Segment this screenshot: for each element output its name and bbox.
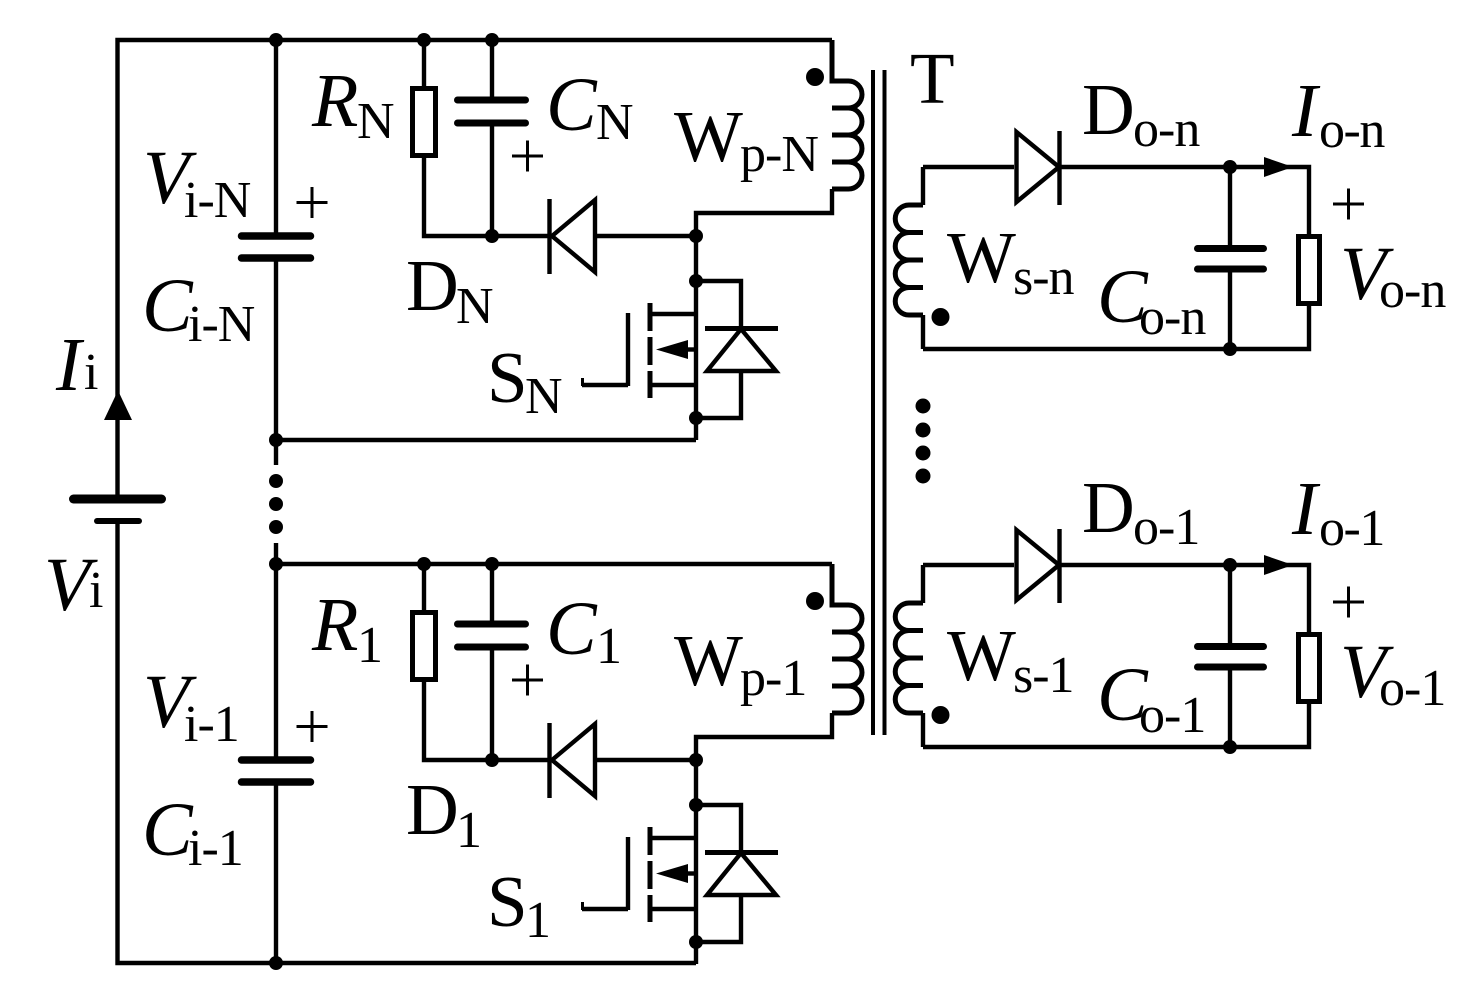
battery V_i (short plate): [97, 518, 139, 524]
svg-text:s-n: s-n: [1013, 249, 1075, 306]
transistor S_1 gate lead: [582, 907, 628, 911]
wire: load bottom lead / output bottom rail: [923, 702, 1309, 748]
wire: body diode top branch: [696, 281, 741, 329]
wire: body diode bottom branch: [696, 371, 741, 418]
node: cell N bottom rail junction: [269, 433, 283, 447]
node: bottom rail / C_i-1 junction: [269, 956, 283, 970]
wire: body diode bottom branch: [696, 895, 741, 942]
svg-text:o-n: o-n: [1379, 262, 1446, 319]
winding W_p-1: primary coil: [832, 564, 862, 713]
diode D_1 (triangle): [552, 724, 595, 796]
svg-text:o-1: o-1: [1379, 660, 1445, 717]
wire: C_N top lead: [490, 40, 494, 97]
wire: load bottom lead / output bottom rail: [923, 304, 1309, 350]
svg-text:S: S: [487, 861, 528, 942]
wire: diode D_1 anode to drain node: [595, 758, 696, 762]
transistor S_1 channel dashes: [648, 827, 653, 922]
wire: C_1 top lead: [490, 564, 494, 621]
winding W_p-N: primary coil: [832, 40, 862, 189]
svg-text:i-1: i-1: [188, 820, 243, 877]
arrow I_o-1: [1264, 555, 1293, 575]
svg-text:i-N: i-N: [184, 172, 251, 229]
capacitor C_i-1: [242, 760, 311, 782]
svg-text:N: N: [456, 278, 494, 335]
svg-text:i-1: i-1: [184, 696, 239, 753]
wire: C_o-1 bottom lead: [1228, 671, 1232, 748]
wire: C_i-N top lead: [274, 40, 278, 233]
wire: R_1 bottom lead to snubber rail: [424, 680, 550, 760]
battery V_i (long plate): [74, 495, 162, 504]
load resistor V_o-n: [1299, 237, 1320, 304]
svg-text:D: D: [1082, 467, 1135, 548]
wire: C_i-N bottom lead: [274, 262, 278, 466]
wire: secondary leads: [921, 565, 925, 747]
svg-text:N: N: [596, 94, 634, 151]
node: drain / body-diode top junction: [689, 798, 703, 812]
arrow I_o-n: [1264, 157, 1293, 177]
polarity + of V_o-n: [1333, 189, 1364, 220]
polarity + of C_i-1: [297, 711, 328, 742]
svg-text:p-1: p-1: [740, 650, 806, 707]
wire: C_1 bottom lead: [490, 651, 494, 761]
node: top rail / C_N junction: [485, 33, 499, 47]
wire: top rail and left rail upper: [118, 40, 833, 495]
wire: C_o-n bottom lead: [1228, 273, 1232, 350]
winding W_s-n: secondary coil: [895, 205, 923, 315]
svg-text:o-n: o-n: [1319, 102, 1385, 159]
phase dot of W_p-1: [806, 592, 824, 610]
phase dot of W_s-n: [932, 308, 950, 326]
svg-text:D: D: [1082, 69, 1135, 150]
svg-text:I: I: [1291, 69, 1321, 153]
wire: C_o-n top lead: [1228, 167, 1232, 245]
wire: secondary top to diode D_o-1: [923, 563, 1014, 567]
wire: output top rail: [1060, 167, 1310, 237]
resistor R_1: [413, 613, 436, 680]
node: source / body-diode bottom junction: [689, 411, 703, 425]
transistor S_N body arrow: [656, 340, 688, 359]
node: drain rail / diode junction: [689, 753, 703, 767]
wire: secondary top to diode D_o-n: [923, 165, 1014, 169]
wire: C_N bottom lead: [490, 127, 494, 237]
node: top rail / C_i-N junction: [269, 33, 283, 47]
ellipsis dots between input cells: [269, 474, 283, 534]
wire: body diode top branch: [696, 805, 741, 853]
capacitor C_i-N: [242, 236, 311, 258]
wire: left rail lower and bottom rail: [118, 524, 697, 963]
winding W_s-1: secondary coil: [895, 603, 923, 713]
node: cell 1 top rail junction: [269, 557, 283, 571]
transformer T core line 1: [871, 70, 875, 735]
svg-text:1: 1: [525, 892, 551, 949]
node: source / body-diode bottom junction: [689, 935, 703, 949]
arrow I_i: [104, 391, 132, 421]
wire: primary bottom lead to drain rail: [696, 189, 832, 440]
svg-text:i: i: [84, 344, 98, 401]
svg-text:N: N: [525, 368, 563, 425]
body diode of S_N (triangle): [707, 329, 776, 371]
transistor S_N drain lead: [650, 312, 698, 316]
diode D_1 (cathode bar): [547, 723, 551, 798]
svg-text:i-N: i-N: [188, 296, 255, 353]
transformer T core line 2: [883, 70, 887, 735]
capacitor C_o-n: [1198, 249, 1264, 270]
svg-text:W: W: [947, 217, 1016, 298]
svg-text:o-n: o-n: [1133, 101, 1200, 158]
wire: secondary leads: [921, 167, 925, 349]
wire: cell 1 top rail: [276, 562, 832, 566]
svg-text:W: W: [674, 620, 743, 701]
capacitor C_N: [458, 100, 526, 123]
svg-text:1: 1: [596, 618, 622, 675]
capacitor C_1: [458, 624, 526, 647]
diode D_o-n (cathode bar): [1057, 131, 1061, 205]
wire: cell N bottom rail: [276, 438, 696, 442]
node: output top / C_o-n junction: [1223, 160, 1237, 174]
transistor S_1 body arrow: [656, 864, 688, 883]
body diode of S_N (cathode bar): [705, 326, 778, 331]
diode D_o-n (triangle): [1017, 132, 1060, 202]
wire: output top rail: [1060, 565, 1310, 635]
node: output bottom / C_o-n junction: [1223, 342, 1237, 356]
transistor S_N channel dashes: [648, 303, 653, 398]
transistor S_N gate lead: [582, 383, 628, 387]
diode D_N (cathode bar): [547, 199, 551, 274]
ellipsis dots between secondaries: [916, 399, 931, 484]
diode D_o-1 (cathode bar): [1057, 529, 1061, 603]
load resistor V_o-1: [1299, 635, 1320, 702]
transistor S_N gate bar: [626, 313, 630, 386]
wire: C_i-1 bottom lead: [274, 786, 278, 964]
polarity + of C_1: [512, 665, 543, 696]
svg-text:i: i: [89, 562, 103, 619]
svg-text:1: 1: [357, 617, 383, 674]
wire: R_1 top lead: [422, 564, 426, 613]
svg-text:o-1: o-1: [1139, 687, 1205, 744]
wire: diode D_N anode to drain node: [595, 234, 696, 238]
node: top rail / R_N junction: [417, 33, 431, 47]
wire: R_N bottom lead to snubber rail: [424, 156, 550, 236]
svg-text:o-1: o-1: [1319, 500, 1384, 557]
transistor S_1 source lead: [650, 907, 698, 911]
transistor S_N source lead: [650, 383, 698, 387]
svg-text:o-1: o-1: [1133, 499, 1199, 556]
svg-text:C: C: [142, 264, 194, 348]
polarity + of C_i-N: [297, 187, 328, 218]
phase dot of W_s-1: [932, 706, 950, 724]
polarity + of V_o-1: [1333, 587, 1364, 618]
svg-text:T: T: [910, 38, 955, 119]
node: snubber rail / C_1 junction: [485, 753, 499, 767]
node: cell 1 rail / R_1 junction: [417, 557, 431, 571]
svg-text:W: W: [947, 615, 1016, 696]
node: cell 1 rail / C_1 junction: [485, 557, 499, 571]
svg-text:C: C: [546, 587, 598, 671]
svg-text:N: N: [357, 93, 395, 150]
svg-text:1: 1: [456, 802, 482, 859]
svg-text:D: D: [406, 769, 459, 850]
node: output top / C_o-1 junction: [1223, 558, 1237, 572]
svg-text:C: C: [546, 63, 598, 147]
transistor S_1 gate bar: [626, 837, 630, 910]
wire: C_i-1 top lead: [274, 543, 278, 757]
svg-text:I: I: [1291, 467, 1321, 551]
svg-text:S: S: [487, 337, 528, 418]
svg-text:D: D: [406, 245, 459, 326]
diode D_o-1 (triangle): [1017, 530, 1060, 600]
wire: primary bottom lead to drain rail: [696, 713, 832, 964]
node: drain rail / diode junction: [689, 229, 703, 243]
phase dot of W_p-N: [806, 68, 824, 86]
body diode of S_1 (cathode bar): [705, 850, 778, 855]
node: snubber rail / C_N junction: [485, 229, 499, 243]
svg-text:W: W: [674, 96, 743, 177]
wire: C_o-1 top lead: [1228, 565, 1232, 643]
body diode of S_1 (triangle): [707, 853, 776, 895]
svg-text:I: I: [55, 323, 85, 407]
polarity + of C_N: [512, 141, 543, 172]
node: drain / body-diode top junction: [689, 274, 703, 288]
svg-text:R: R: [311, 583, 358, 667]
capacitor C_o-1: [1198, 647, 1264, 668]
svg-text:s-1: s-1: [1013, 647, 1074, 704]
wire: R_N top lead: [422, 40, 426, 89]
node: output bottom / C_o-1 junction: [1223, 740, 1237, 754]
diode D_N (triangle): [552, 200, 595, 272]
svg-text:p-N: p-N: [740, 126, 818, 183]
svg-text:C: C: [142, 788, 194, 872]
svg-text:R: R: [311, 59, 358, 143]
svg-text:o-n: o-n: [1139, 289, 1206, 346]
resistor R_N: [413, 89, 436, 156]
transistor S_1 drain lead: [650, 836, 698, 840]
